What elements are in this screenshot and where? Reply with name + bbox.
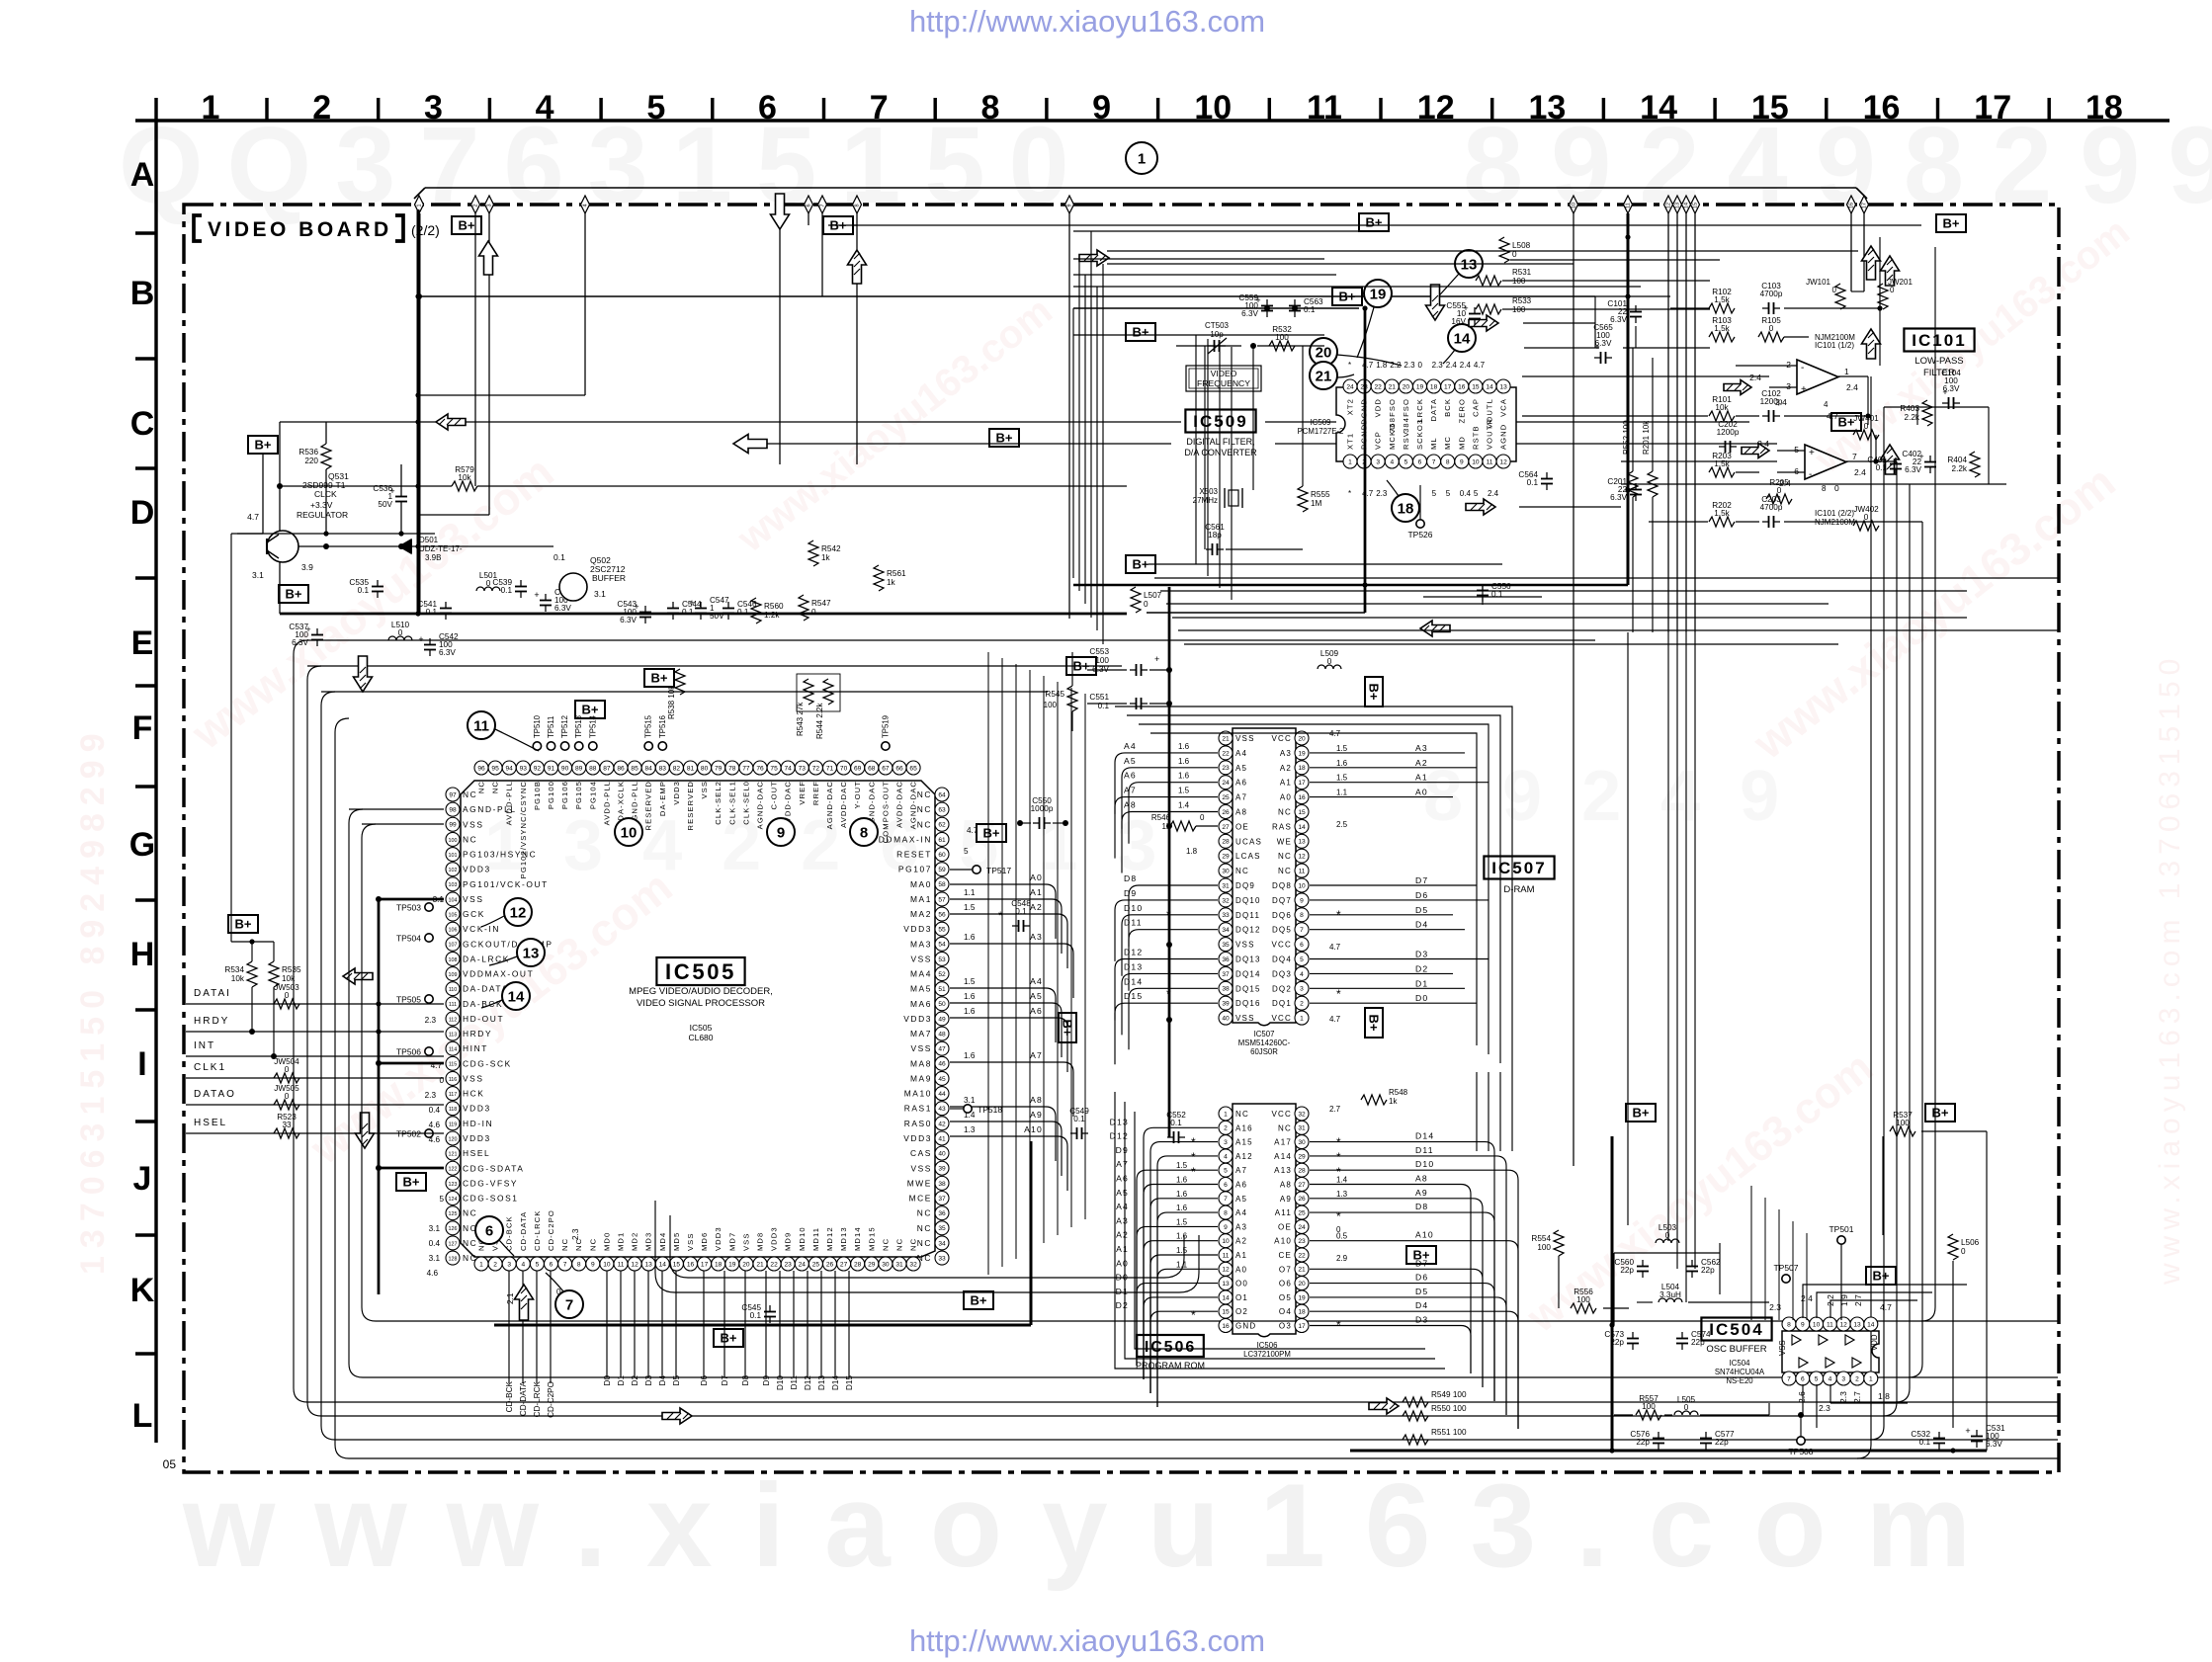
svg-text:A0: A0	[1116, 1258, 1129, 1268]
wire IC101 nets	[1594, 296, 1596, 348]
inductor L501	[476, 587, 500, 591]
svg-text:VDD3: VDD3	[463, 865, 491, 874]
wire loops to IC506 verticals join	[1477, 1072, 1512, 1151]
svg-text:35: 35	[1222, 942, 1230, 949]
svg-text:MA5: MA5	[910, 984, 932, 994]
svg-text:20: 20	[1298, 1281, 1306, 1288]
svg-text:50: 50	[938, 1001, 946, 1008]
svg-text:R555: R555	[1311, 490, 1330, 499]
svg-text:10k: 10k	[458, 473, 471, 482]
svg-text:4: 4	[536, 89, 554, 126]
svg-text:5: 5	[1474, 489, 1479, 498]
svg-text:0: 0	[1777, 486, 1782, 495]
svg-text:MD1: MD1	[617, 1232, 626, 1251]
svg-text:NJM2100M: NJM2100M	[1815, 333, 1855, 342]
svg-text:6: 6	[485, 1223, 493, 1240]
svg-text:MA6: MA6	[910, 999, 932, 1009]
svg-text:1.5: 1.5	[1176, 1217, 1188, 1226]
svg-text:3: 3	[1300, 986, 1304, 993]
svg-text:46: 46	[938, 1061, 946, 1068]
capacitor C104	[1942, 402, 1949, 404]
svg-text:0: 0	[1144, 600, 1149, 609]
svg-text:126: 126	[449, 1226, 458, 1232]
ruler left line	[154, 98, 157, 1443]
svg-text:17: 17	[1862, 203, 1868, 208]
svg-text:19: 19	[1370, 287, 1387, 303]
svg-text:C-OUT: C-OUT	[770, 781, 779, 810]
svg-text:0.1: 0.1	[1919, 1438, 1931, 1447]
svg-text:RESERVED: RESERVED	[686, 781, 695, 830]
svg-text:D1: D1	[617, 1375, 626, 1386]
svg-text:CLK-SEL2: CLK-SEL2	[714, 781, 723, 825]
svg-text:5: 5	[536, 1261, 540, 1268]
svg-text:1.2k: 1.2k	[764, 611, 780, 620]
svg-text:UDZ-TE-17-: UDZ-TE-17-	[419, 544, 463, 553]
transistor Q502	[559, 573, 587, 601]
page arrow left ic509 bottom	[1420, 621, 1450, 636]
IC504 package outline	[1782, 1331, 1879, 1372]
svg-text:DQ9: DQ9	[1235, 881, 1255, 890]
svg-text:9: 9	[1300, 897, 1304, 904]
svg-text:74: 74	[785, 765, 793, 772]
svg-text:XT1: XT1	[1346, 433, 1355, 450]
svg-text:1: 1	[202, 89, 220, 126]
svg-text:CD-DATA: CD-DATA	[519, 1211, 528, 1251]
svg-text:6: 6	[550, 1261, 553, 1268]
svg-text:MD4: MD4	[658, 1232, 667, 1251]
svg-text:1.4: 1.4	[1178, 801, 1190, 810]
svg-text:AGND-PLL: AGND-PLL	[463, 804, 517, 814]
capacitor C203	[1762, 521, 1769, 523]
svg-text:TP514: TP514	[588, 714, 597, 738]
svg-text:0.1: 0.1	[358, 586, 370, 595]
svg-text:5: 5	[439, 1195, 444, 1204]
svg-text:http://www.xiaoyu163.com: http://www.xiaoyu163.com	[909, 4, 1265, 39]
svg-text:R547: R547	[811, 599, 831, 608]
svg-text:13: 13	[1853, 1321, 1861, 1328]
svg-text:5: 5	[1404, 458, 1408, 465]
svg-text:69: 69	[854, 765, 862, 772]
svg-text:TP513: TP513	[574, 715, 583, 738]
svg-text:2.4: 2.4	[1460, 361, 1472, 370]
svg-text:DQ7: DQ7	[1272, 896, 1292, 905]
wire thick vertical 423	[417, 209, 420, 614]
svg-text:HSEL: HSEL	[194, 1118, 227, 1128]
svg-text:6.3V: 6.3V	[620, 616, 637, 624]
svg-text:14: 14	[1454, 331, 1471, 348]
svg-text:VSS: VSS	[910, 1163, 932, 1173]
svg-text:101: 101	[449, 853, 458, 859]
svg-text:A17: A17	[1274, 1138, 1292, 1147]
svg-text:16: 16	[687, 1261, 695, 1268]
svg-text:1.6: 1.6	[1176, 1232, 1188, 1241]
svg-text:3: 3	[424, 89, 443, 126]
svg-text:40: 40	[938, 1151, 946, 1158]
svg-text:A3: A3	[1235, 1222, 1247, 1231]
inductor L507	[1131, 587, 1141, 613]
svg-text:TP501: TP501	[1829, 1224, 1853, 1234]
svg-text:R535: R535	[282, 965, 301, 974]
svg-text:58: 58	[938, 881, 946, 888]
callout 13	[517, 939, 545, 966]
svg-text:57: 57	[938, 896, 946, 903]
IC506 left pins	[1219, 1107, 1256, 1333]
capacitor C577	[1705, 1432, 1707, 1439]
svg-text:IC509: IC509	[1311, 418, 1331, 427]
svg-text:104: 104	[449, 897, 458, 903]
resistor R556	[1571, 1303, 1596, 1313]
svg-text:MD5: MD5	[672, 1232, 681, 1251]
svg-text:D4: D4	[1415, 920, 1428, 930]
svg-text:6.3V: 6.3V	[1595, 339, 1612, 348]
svg-text:MD15: MD15	[867, 1226, 876, 1251]
wire thick bottom bus	[494, 1324, 1031, 1327]
svg-text:63: 63	[938, 807, 946, 814]
svg-text:D4: D4	[1415, 1300, 1428, 1310]
svg-text:*: *	[1336, 908, 1341, 922]
svg-text:6: 6	[1794, 466, 1799, 476]
svg-text:2.3: 2.3	[1819, 1403, 1830, 1413]
svg-text:RSV: RSV	[1402, 431, 1410, 450]
svg-text:12: 12	[1417, 89, 1455, 126]
wire mid verticals IC505-IC507	[988, 652, 1085, 1275]
callout 21	[1310, 362, 1337, 389]
IC507 left outside labels	[1115, 741, 1218, 1064]
svg-text:39: 39	[938, 1166, 946, 1173]
svg-text:A5: A5	[1030, 991, 1043, 1001]
svg-text:0: 0	[398, 628, 403, 637]
resistor R404	[1970, 452, 1980, 477]
svg-text:D12: D12	[1110, 1131, 1129, 1141]
svg-text:D0: D0	[1415, 993, 1428, 1003]
svg-text:RESET: RESET	[896, 850, 932, 860]
resistor JW401	[1853, 430, 1879, 440]
svg-text:0.1: 0.1	[553, 552, 565, 562]
svg-text:22p: 22p	[1701, 1266, 1715, 1275]
svg-text:VSS: VSS	[463, 894, 484, 904]
svg-text:A7: A7	[1124, 786, 1137, 795]
svg-text:PG105: PG105	[574, 781, 583, 809]
svg-text:R536: R536	[298, 448, 318, 457]
page arrow up IC101 low	[1881, 445, 1900, 474]
IC507 right pins	[1272, 731, 1310, 1025]
svg-text:37: 37	[938, 1196, 946, 1203]
svg-text:A6: A6	[1116, 1174, 1129, 1184]
svg-text:D3: D3	[644, 1375, 653, 1386]
svg-text:116: 116	[449, 1077, 458, 1083]
wire IC504 area	[1614, 1252, 1720, 1254]
svg-text:SN74HCU04A: SN74HCU04A	[1715, 1368, 1765, 1376]
capacitor C563	[1294, 299, 1296, 306]
page arrow up IC101 right1	[1862, 246, 1881, 280]
svg-text:B+: B+	[1060, 1020, 1074, 1037]
svg-text:A10: A10	[1274, 1237, 1292, 1246]
svg-text:A3: A3	[1030, 932, 1043, 942]
svg-text:A11: A11	[1275, 1208, 1292, 1217]
svg-text:*: *	[1336, 1318, 1341, 1332]
svg-text:RAS: RAS	[1272, 822, 1292, 831]
capacitor C565	[1594, 357, 1601, 359]
callout 20	[1310, 338, 1337, 366]
svg-text:IC506: IC506	[1145, 1339, 1196, 1356]
page arrow down left J	[356, 1113, 375, 1148]
svg-text:B+: B+	[1339, 290, 1356, 304]
svg-text:VCA: VCA	[1499, 398, 1508, 417]
svg-text:HSEL: HSEL	[463, 1148, 490, 1158]
svg-text:CAS: CAS	[910, 1148, 932, 1158]
svg-text:+: +	[1809, 448, 1815, 458]
svg-text:4: 4	[521, 1261, 525, 1268]
svg-text:VDDMAX-IN: VDDMAX-IN	[872, 834, 932, 844]
svg-text:A9: A9	[1280, 1195, 1292, 1204]
svg-text:106: 106	[449, 928, 458, 934]
svg-text:100: 100	[1576, 1295, 1590, 1304]
svg-text:A4: A4	[1235, 749, 1247, 758]
svg-text:0.4: 0.4	[429, 1239, 441, 1248]
svg-text:D10: D10	[1124, 903, 1143, 913]
svg-text:A4: A4	[1124, 741, 1137, 751]
svg-text:TP503: TP503	[396, 903, 421, 913]
svg-text:11: 11	[1223, 1252, 1230, 1259]
B+ IC101	[1831, 413, 1861, 431]
svg-text:BUFFER: BUFFER	[592, 573, 626, 583]
svg-text:4.7: 4.7	[1474, 361, 1486, 370]
svg-text:54: 54	[938, 942, 946, 949]
svg-text:2.3: 2.3	[425, 1091, 437, 1100]
wire top bus	[425, 187, 1856, 189]
resistor R101	[1709, 411, 1735, 421]
svg-text:A15: A15	[1235, 1138, 1253, 1147]
svg-text:27: 27	[1298, 1182, 1306, 1189]
svg-text:OE: OE	[1235, 822, 1249, 831]
svg-text:A8: A8	[1415, 1174, 1428, 1184]
svg-text:11: 11	[1626, 203, 1632, 208]
svg-text:MA9: MA9	[910, 1073, 932, 1083]
svg-text:A7: A7	[1030, 1050, 1043, 1060]
svg-text:8: 8	[855, 204, 861, 207]
svg-text:VCC: VCC	[1272, 941, 1293, 950]
svg-text:3.1: 3.1	[964, 1096, 976, 1105]
page arrow left C row 2	[733, 435, 767, 454]
inductor L503	[1656, 1239, 1679, 1243]
svg-text:R548: R548	[1389, 1088, 1408, 1097]
svg-text:0.1: 0.1	[737, 608, 749, 617]
svg-text:IC505: IC505	[690, 1023, 713, 1033]
svg-text:2: 2	[1786, 360, 1791, 370]
svg-text:D0: D0	[603, 1375, 612, 1386]
svg-text:24: 24	[1298, 1224, 1306, 1231]
resistor R533	[1476, 304, 1501, 314]
svg-text:86: 86	[617, 765, 625, 772]
svg-text:D9: D9	[1116, 1145, 1129, 1155]
svg-text:6: 6	[1224, 1182, 1228, 1189]
svg-text:A16: A16	[1235, 1123, 1253, 1132]
svg-text:32: 32	[909, 1261, 917, 1268]
svg-text:17: 17	[1298, 1323, 1306, 1330]
svg-text:8: 8	[577, 1261, 581, 1268]
svg-text:MSM514260C-: MSM514260C-	[1238, 1039, 1291, 1047]
resistor JW503	[274, 999, 299, 1009]
wire nested loops around IC507	[1115, 706, 1512, 1072]
svg-text:2.3: 2.3	[1376, 489, 1388, 498]
svg-text:6: 6	[1801, 1375, 1805, 1382]
svg-text:MD2: MD2	[631, 1232, 639, 1251]
IC505 right pin column	[872, 788, 949, 1265]
svg-text:15: 15	[673, 1261, 681, 1268]
svg-text:1.6: 1.6	[1176, 1190, 1188, 1199]
IC509 package outline	[1336, 387, 1516, 461]
IC507 right outside labels	[1310, 743, 1489, 1003]
svg-text:LC372100PM: LC372100PM	[1243, 1350, 1291, 1359]
svg-text:83: 83	[659, 765, 667, 772]
svg-text:0: 0	[1665, 1231, 1670, 1240]
svg-text:40: 40	[1222, 1016, 1230, 1023]
svg-text:HD-IN: HD-IN	[463, 1119, 493, 1128]
wire loop under IC505	[655, 1201, 1199, 1292]
svg-text:PG101/VCK-OUT: PG101/VCK-OUT	[463, 879, 549, 889]
svg-text:28: 28	[1222, 839, 1230, 846]
svg-text:7: 7	[1432, 458, 1436, 465]
svg-text:G: G	[129, 826, 155, 864]
svg-text:22: 22	[1375, 383, 1383, 390]
svg-text:9: 9	[591, 1261, 595, 1268]
inductor L509	[1318, 665, 1341, 669]
svg-text:NC: NC	[881, 1238, 890, 1251]
svg-text:R550 100: R550 100	[1431, 1404, 1467, 1413]
B+ box left H	[228, 915, 258, 933]
svg-text:A0: A0	[1415, 788, 1428, 797]
test point TP518	[964, 1105, 972, 1113]
svg-text:128: 128	[449, 1256, 458, 1262]
svg-text:REGULATOR: REGULATOR	[297, 510, 348, 520]
svg-text:3.1: 3.1	[252, 570, 264, 580]
svg-text:6.3V: 6.3V	[1986, 1440, 2002, 1449]
svg-text:0: 0	[1769, 324, 1774, 333]
svg-text:IC101 (1/2): IC101 (1/2)	[1815, 341, 1854, 350]
IC509 label box	[1185, 410, 1255, 433]
svg-text:22p: 22p	[1610, 1338, 1624, 1347]
svg-text:PG106: PG106	[560, 781, 569, 809]
svg-text:B+: B+	[1073, 659, 1090, 674]
resistor R523	[274, 1128, 299, 1138]
IC101 label box	[1904, 329, 1974, 352]
svg-text:A9: A9	[1030, 1110, 1043, 1120]
resistor R403	[1922, 400, 1932, 426]
svg-text:80: 80	[701, 765, 709, 772]
op-amp IC101 1/2	[1797, 360, 1838, 394]
svg-text:82: 82	[673, 765, 681, 772]
svg-text:RAS0: RAS0	[904, 1119, 932, 1128]
resistor R537	[1890, 1126, 1915, 1136]
svg-text:A1: A1	[1280, 779, 1292, 788]
svg-text:IC509: IC509	[1193, 412, 1248, 431]
op-amp IC101 2/2	[1805, 445, 1846, 479]
svg-text:B+: B+	[1943, 216, 1960, 231]
svg-text:5: 5	[1446, 489, 1451, 498]
svg-text:VDD3: VDD3	[770, 1226, 779, 1251]
svg-text:NC: NC	[917, 819, 932, 829]
svg-text:D8: D8	[1124, 873, 1137, 883]
svg-text:B+: B+	[1413, 1248, 1430, 1263]
svg-text:0: 0	[486, 579, 491, 588]
svg-text:R404: R404	[1947, 456, 1967, 464]
svg-text:4: 4	[583, 204, 589, 207]
svg-text:1.1: 1.1	[1336, 789, 1348, 797]
svg-text:CD-C2PO: CD-C2PO	[547, 1209, 555, 1251]
capacitor C574	[1681, 1332, 1683, 1339]
svg-text:21: 21	[756, 1261, 764, 1268]
svg-text:8: 8	[980, 89, 999, 126]
svg-text:*: *	[1191, 1150, 1196, 1164]
svg-text:1.5: 1.5	[1176, 1161, 1188, 1170]
resistor R551	[1403, 1435, 1428, 1445]
svg-text:*: *	[1191, 1135, 1196, 1149]
svg-text:WE: WE	[1277, 837, 1292, 846]
svg-text:AVDD-PLL: AVDD-PLL	[505, 781, 514, 825]
resistor R547	[799, 595, 808, 621]
wire left bus top stubs	[307, 665, 356, 667]
svg-text:30: 30	[1298, 1139, 1306, 1146]
svg-text:0.1: 0.1	[682, 608, 694, 617]
IC504 top pins	[1782, 1317, 1878, 1331]
svg-text:B: B	[130, 275, 155, 312]
svg-text:20: 20	[1316, 345, 1332, 362]
svg-text:TP504: TP504	[396, 934, 421, 944]
svg-text:MCE: MCE	[909, 1194, 932, 1204]
svg-text:1.5: 1.5	[1336, 774, 1348, 783]
svg-text:http://www.xiaoyu163.com: http://www.xiaoyu163.com	[909, 1623, 1265, 1658]
svg-text:2.4: 2.4	[1446, 361, 1458, 370]
svg-text:1200p: 1200p	[1717, 428, 1740, 437]
svg-text:9: 9	[777, 825, 785, 842]
svg-text:2.5: 2.5	[1336, 820, 1348, 829]
svg-text:A0: A0	[1280, 793, 1292, 802]
crystal X503	[1229, 490, 1238, 506]
wire E row bus1	[280, 613, 1127, 616]
svg-text:C551: C551	[1089, 693, 1109, 702]
svg-text:98: 98	[449, 807, 457, 814]
svg-text:6.3V: 6.3V	[554, 604, 571, 613]
svg-text:0: 0	[1327, 657, 1332, 666]
svg-text:94: 94	[506, 765, 514, 772]
svg-text:PG100: PG100	[547, 781, 555, 809]
svg-text:VDD3: VDD3	[463, 1133, 491, 1143]
svg-text:6.3V: 6.3V	[292, 638, 308, 647]
svg-text:CD-BCK: CD-BCK	[505, 1380, 514, 1412]
svg-text:10: 10	[603, 1261, 611, 1268]
svg-text:14: 14	[1684, 203, 1690, 208]
svg-text:DQ10: DQ10	[1235, 896, 1261, 905]
B+ box C row right	[989, 429, 1019, 447]
svg-text:A: A	[130, 156, 155, 194]
svg-text:22: 22	[1222, 750, 1230, 757]
svg-text:NC: NC	[463, 1238, 477, 1248]
svg-text:D1: D1	[1415, 978, 1428, 988]
resistor JW201	[1878, 284, 1888, 309]
svg-text:MWE: MWE	[907, 1178, 932, 1188]
svg-text:121: 121	[449, 1152, 458, 1158]
svg-text:0: 0	[1832, 286, 1837, 294]
callout 12	[504, 898, 532, 926]
wire E row bus4	[356, 691, 1048, 693]
wire R552 R201 verticals	[1633, 348, 1653, 632]
svg-text:7: 7	[1224, 1196, 1228, 1203]
svg-text:114: 114	[449, 1047, 458, 1053]
svg-text:VCC: VCC	[1272, 1110, 1293, 1119]
svg-text:13: 13	[1298, 839, 1306, 846]
svg-text:4700p: 4700p	[1760, 503, 1783, 512]
capacitor C543	[644, 606, 646, 613]
